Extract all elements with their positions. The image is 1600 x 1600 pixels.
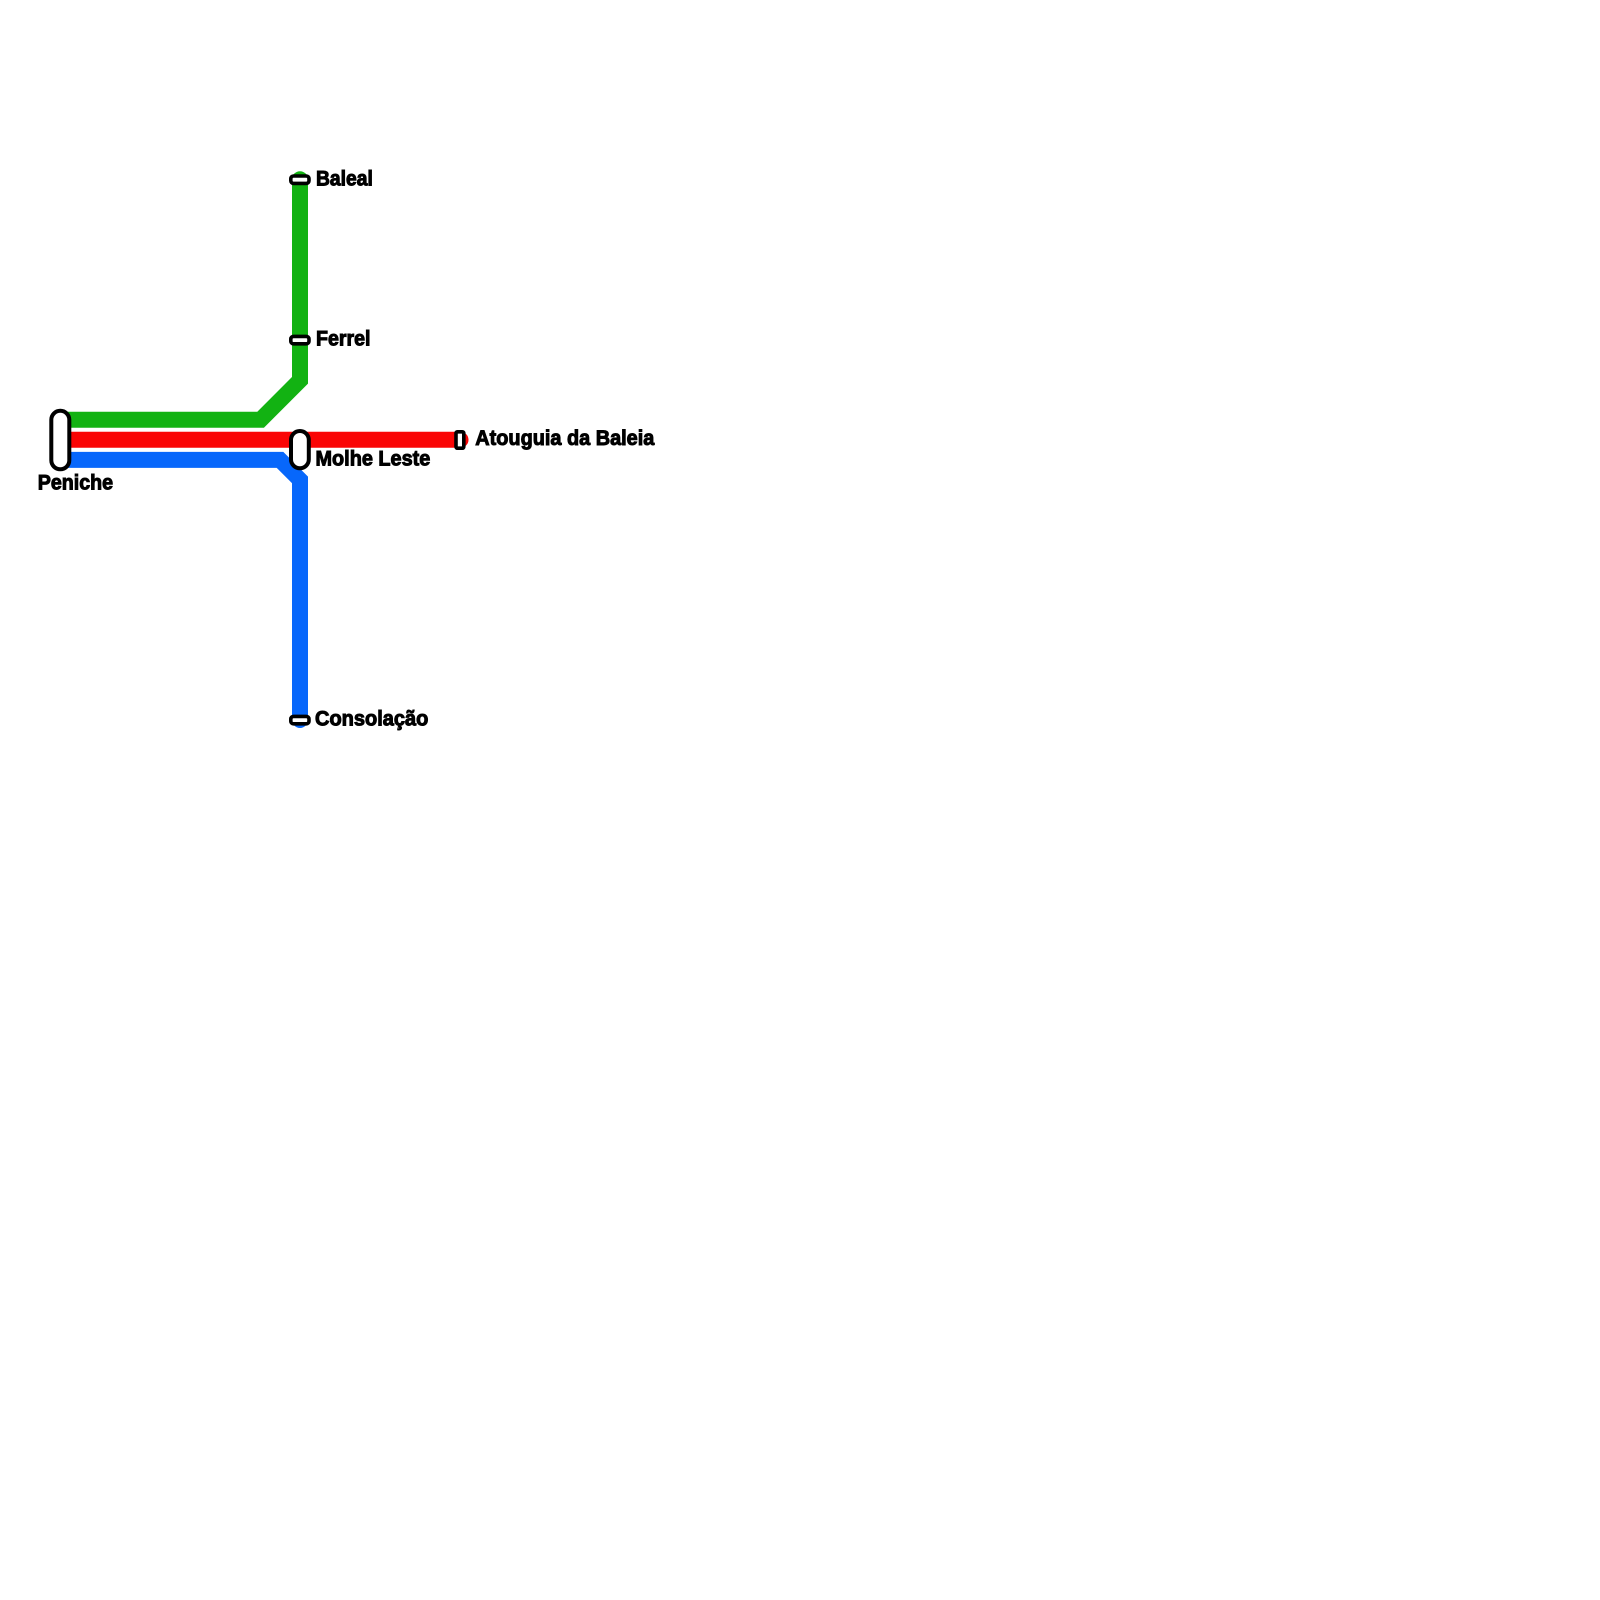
station Ferrel (291, 336, 309, 343)
station Consolacao (291, 716, 309, 723)
svg-text:Consolação: Consolação (315, 707, 428, 730)
station Peniche (capsule) (51, 411, 69, 470)
station Baleal (291, 176, 309, 183)
red line Peniche-Atouguia (60, 432, 460, 448)
svg-text:Atouguia da Baleia: Atouguia da Baleia (475, 427, 654, 450)
svg-text:Ferrel: Ferrel (316, 327, 370, 350)
svg-text:Molhe Leste: Molhe Leste (316, 447, 431, 470)
station Molhe Leste (capsule) (291, 431, 309, 468)
blue line Peniche-Consolacao (60, 460, 300, 720)
green line Baleal-Peniche (60, 179, 300, 420)
station Atouguia da Baleia (456, 432, 464, 448)
svg-text:Peniche: Peniche (38, 472, 113, 495)
svg-text:Baleal: Baleal (316, 167, 373, 190)
